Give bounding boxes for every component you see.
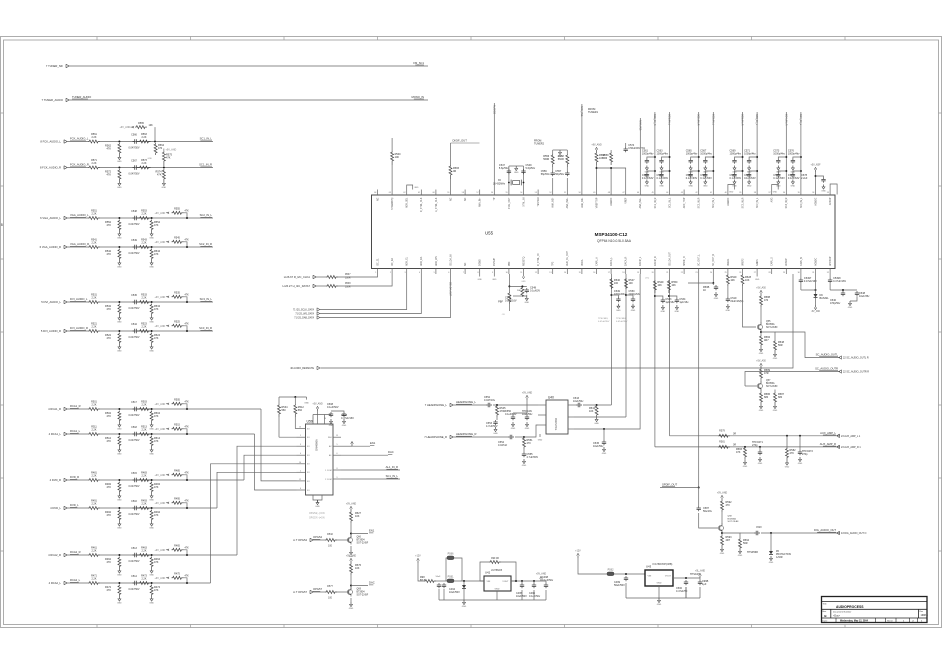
svg-text:GND: GND bbox=[117, 267, 122, 269]
svg-text:C517: C517 bbox=[131, 401, 137, 404]
svg-text:GND: GND bbox=[773, 192, 778, 194]
fuse PS62 bbox=[607, 569, 614, 576]
resistor R587 680 bbox=[774, 392, 777, 404]
svg-text:GND: GND bbox=[495, 589, 500, 591]
svg-text:GND: GND bbox=[149, 528, 154, 530]
wire AUDIO2 to pin TP bbox=[493, 103, 495, 190]
wire bbox=[578, 558, 607, 574]
svg-text:ANA_IN+: ANA_IN+ bbox=[479, 197, 482, 207]
svg-text:2.2K: 2.2K bbox=[92, 326, 97, 329]
svg-text:-5V: -5V bbox=[502, 314, 506, 316]
svg-text:TUNER2: TUNER2 bbox=[534, 143, 545, 146]
svg-text:+9V_AND: +9V_AND bbox=[155, 502, 166, 505]
ground bbox=[594, 417, 599, 425]
resistor R584 4R7 bbox=[760, 335, 763, 347]
svg-text:29: 29 bbox=[783, 272, 785, 274]
svg-text:FM_SC1: FM_SC1 bbox=[413, 61, 424, 65]
IC U59 DM4066 body bbox=[306, 420, 334, 496]
wire bus riser x=237.0 bbox=[237, 446, 297, 555]
resistor R571 2.2K bbox=[88, 166, 100, 169]
wire SC2_IN_R bbox=[698, 112, 700, 190]
resistor R565 10K bbox=[135, 126, 147, 129]
wire branch bbox=[509, 285, 526, 287]
wire bbox=[610, 150, 612, 152]
svg-text:C528: C528 bbox=[756, 527, 762, 529]
transistor Q57 BC856A bbox=[757, 382, 762, 391]
transistor Q55 BC856A bbox=[757, 323, 762, 332]
wire collector bbox=[350, 575, 352, 589]
svg-text:SC4_IN_L: SC4_IN_L bbox=[801, 197, 803, 208]
svg-text:8 FCK_AUDIO_L: 8 FCK_AUDIO_L bbox=[40, 140, 61, 144]
net label AUDIO2 (rotated) bbox=[492, 105, 495, 115]
wire bbox=[829, 283, 831, 290]
svg-text:7: 7 bbox=[312, 418, 313, 420]
svg-text:GND: GND bbox=[117, 500, 122, 502]
net label DIGIF_OUT bbox=[451, 139, 480, 144]
svg-text:47K: 47K bbox=[107, 224, 112, 227]
svg-text:53: 53 bbox=[535, 192, 537, 194]
svg-text:1: 1 bbox=[300, 435, 301, 437]
svg-text:DVI_AUDIO_R: DVI_AUDIO_R bbox=[70, 326, 88, 330]
svg-text:+9V_AND: +9V_AND bbox=[120, 126, 131, 129]
svg-text:C518: C518 bbox=[131, 426, 137, 429]
resistor R503 2.2K bbox=[139, 408, 151, 411]
svg-text:71 I2S_SCLK_DATA: 71 I2S_SCLK_DATA bbox=[293, 309, 314, 312]
svg-text:680: 680 bbox=[764, 396, 769, 399]
wire bypass right bbox=[501, 562, 516, 581]
capacitor C566 0.047/50V bbox=[133, 139, 139, 143]
svg-text:47K: 47K bbox=[107, 589, 112, 592]
title block frame bbox=[822, 597, 928, 623]
junction bbox=[186, 582, 188, 584]
svg-text:I/O: I/O bbox=[307, 481, 310, 483]
connector 23 AUX_AMP_L bbox=[837, 434, 861, 438]
junction bbox=[610, 294, 612, 296]
power +5V_AND out bbox=[536, 573, 547, 581]
svg-text:+9V_AND: +9V_AND bbox=[155, 428, 166, 431]
svg-text:SC1_IN_R: SC1_IN_R bbox=[653, 114, 656, 126]
svg-text:47K: 47K bbox=[107, 514, 112, 517]
resistor R485 47K bbox=[172, 473, 184, 476]
svg-text:2.2K: 2.2K bbox=[142, 162, 147, 165]
svg-text:47K: 47K bbox=[154, 308, 159, 311]
svg-text:A_CTRL_CLK: A_CTRL_CLK bbox=[435, 197, 438, 212]
ground stub above U59 bbox=[304, 397, 309, 405]
connector 4 RCA1_R bbox=[48, 407, 67, 411]
svg-text:A.T OPG57: A.T OPG57 bbox=[293, 590, 307, 594]
svg-text:+5V_AND: +5V_AND bbox=[536, 573, 547, 576]
wire cap stub bbox=[611, 295, 618, 297]
svg-text:SC_OUT_L: SC_OUT_L bbox=[699, 254, 701, 266]
svg-text:ADR_DA: ADR_DA bbox=[420, 256, 423, 266]
svg-text:680: 680 bbox=[778, 396, 783, 399]
ground bbox=[732, 180, 737, 188]
junction bbox=[799, 435, 801, 437]
capacitor C564 0.1uF/63V bbox=[659, 173, 663, 178]
resistor R505 47K bbox=[172, 402, 184, 405]
svg-text:STANDBYQ: STANDBYQ bbox=[391, 197, 394, 209]
wire bbox=[337, 539, 349, 541]
svg-text:1000p/4kv: 1000p/4kv bbox=[686, 153, 698, 156]
junction bbox=[698, 156, 700, 158]
connector 4 DVD_L bbox=[50, 506, 67, 510]
svg-text:0.1uF/63V: 0.1uF/63V bbox=[657, 177, 669, 180]
svg-text:0.1uF/63V: 0.1uF/63V bbox=[730, 177, 742, 180]
connector 8 FCK_AUDIO_L bbox=[40, 140, 67, 144]
svg-text:6: 6 bbox=[448, 272, 449, 274]
resistor R511 2.2K bbox=[88, 433, 100, 436]
wire bbox=[68, 507, 89, 509]
net label SC3_IN_L bbox=[200, 297, 213, 301]
wire bbox=[685, 587, 687, 598]
connector 71 I2S_WS_DATA bbox=[295, 312, 319, 316]
net label DAC bbox=[369, 581, 375, 585]
resistor R482 47K bbox=[118, 482, 121, 494]
net label DVD_L bbox=[70, 503, 79, 507]
capacitor C5497 0.47uF/16V bbox=[799, 278, 803, 283]
svg-text:HEADPHONE_R: HEADPHONE_R bbox=[456, 432, 477, 436]
svg-text:XTAL_OUT: XTAL_OUT bbox=[508, 197, 511, 209]
ground bbox=[149, 345, 154, 353]
capacitor C565 1000p/4kv bbox=[689, 159, 693, 164]
svg-text:12: 12 bbox=[299, 479, 301, 481]
ground bbox=[726, 304, 731, 312]
svg-text:R581: R581 bbox=[719, 441, 725, 444]
ground bbox=[688, 180, 693, 188]
resistor R513 2.2K bbox=[139, 433, 151, 436]
svg-text:62: 62 bbox=[403, 192, 405, 194]
wire bus riser x=244.0 bbox=[244, 455, 297, 480]
svg-text:R545: R545 bbox=[174, 237, 180, 240]
svg-text:GND: GND bbox=[602, 453, 607, 455]
net label SC1_IN_R bbox=[199, 163, 212, 167]
ground bbox=[117, 597, 122, 605]
svg-text:1000p/4kv: 1000p/4kv bbox=[657, 153, 669, 156]
diode D9 BAS32L bbox=[814, 294, 818, 297]
power +9V_AND feed bbox=[155, 212, 170, 215]
svg-text:PROTECTION: PROTECTION bbox=[776, 554, 791, 556]
svg-text:4 RCA1_R: 4 RCA1_R bbox=[48, 407, 61, 411]
wire +9V feed corner bbox=[184, 475, 188, 480]
ground bbox=[525, 422, 530, 430]
svg-text:2.2K: 2.2K bbox=[92, 475, 97, 478]
resistor R471 2.2K bbox=[88, 582, 100, 585]
svg-text:56uF: 56uF bbox=[436, 576, 441, 578]
svg-text:2.2K: 2.2K bbox=[92, 550, 97, 553]
svg-text:14: 14 bbox=[324, 418, 326, 420]
svg-text:GND: GND bbox=[714, 298, 719, 300]
svg-text:0.047/50V: 0.047/50V bbox=[129, 146, 140, 149]
power +9V_AND feed bbox=[155, 549, 170, 552]
U59 right pin stubs bbox=[325, 435, 341, 481]
svg-text:2.2K: 2.2K bbox=[142, 550, 147, 553]
net label OPG57 bbox=[313, 587, 322, 591]
svg-text:SC1_IN_R: SC1_IN_R bbox=[199, 163, 212, 167]
resistor R533 2.2K bbox=[139, 301, 151, 304]
junction bbox=[151, 433, 153, 435]
svg-text:NC: NC bbox=[450, 197, 452, 201]
resistor R98 0R bbox=[424, 580, 436, 583]
resistor R462 47K bbox=[118, 557, 121, 569]
wire TUNER_SIF bbox=[70, 65, 429, 67]
svg-text:1000p/4kv: 1000p/4kv bbox=[744, 153, 756, 156]
capacitor C533 100p bbox=[661, 298, 665, 303]
net label SC3_IN_R (rotated) bbox=[741, 114, 744, 126]
svg-text:+9V_AND: +9V_AND bbox=[155, 325, 166, 328]
transistor Q66 BT3904 bbox=[347, 536, 352, 545]
wire cap stub bbox=[793, 157, 801, 159]
svg-text:C516: C516 bbox=[131, 500, 137, 503]
net label SC3_IN_R bbox=[199, 326, 212, 330]
svg-text:1µF/16v: 1µF/16v bbox=[679, 301, 689, 304]
svg-text:TPSC683,: TPSC683, bbox=[598, 318, 608, 320]
resistor R545 47K bbox=[172, 240, 184, 243]
svg-text:GND: GND bbox=[747, 186, 752, 188]
resistor R589 47R bbox=[760, 368, 763, 379]
svg-text:Date:: Date: bbox=[822, 620, 828, 623]
svg-text:GND: GND bbox=[117, 603, 122, 605]
wire bbox=[625, 583, 627, 598]
svg-text:DACA_L: DACA_L bbox=[610, 256, 613, 266]
svg-text:47K: 47K bbox=[154, 561, 159, 564]
wire +9V feed corner bbox=[184, 550, 188, 555]
border zone ticks top/bottom bbox=[97, 37, 845, 628]
svg-text:0.047uF: 0.047uF bbox=[498, 444, 508, 447]
resistor R528 10K bbox=[741, 274, 744, 286]
wire ANA_IN2+ bbox=[639, 118, 641, 190]
svg-text:I2S_DA_OUT: I2S_DA_OUT bbox=[449, 282, 452, 297]
connector 23 AUX_AMP_R bbox=[837, 445, 862, 449]
resistor R491 2.2K bbox=[88, 507, 100, 510]
wire bbox=[312, 415, 314, 421]
wire AUDIO_RESMUTE bbox=[321, 274, 794, 368]
capacitor C553 4.7uF/50V bbox=[493, 420, 497, 425]
ground bbox=[759, 347, 764, 355]
wire bbox=[294, 397, 296, 404]
capacitor C550 2200p/63v bbox=[631, 297, 635, 302]
svg-text:1: 1 bbox=[375, 272, 376, 274]
ground bbox=[675, 305, 680, 313]
svg-text:100: 100 bbox=[614, 282, 619, 285]
capacitor C515 0.047/50V bbox=[133, 478, 139, 482]
resistor R562 47K bbox=[118, 143, 121, 155]
svg-text:11: 11 bbox=[520, 272, 522, 274]
svg-text:0.1uF/63V: 0.1uF/63V bbox=[686, 177, 698, 180]
svg-text:4.7uF/50V: 4.7uF/50V bbox=[527, 456, 539, 459]
resistor R474 47K bbox=[150, 585, 153, 597]
svg-text:Q57: Q57 bbox=[766, 380, 771, 382]
svg-text:2.2K: 2.2K bbox=[142, 503, 147, 506]
capacitor C500 0.47uF/50 bbox=[684, 580, 688, 585]
resistor R543 2.2K bbox=[139, 246, 151, 249]
svg-text:DVSUP: DVSUP bbox=[494, 258, 496, 266]
wire bbox=[68, 217, 89, 219]
svg-text:GND: GND bbox=[329, 425, 334, 427]
wire bbox=[446, 558, 447, 581]
wire to pin bbox=[450, 179, 452, 190]
net label DAC bbox=[388, 450, 394, 454]
svg-text:+9V_AND: +9V_AND bbox=[591, 144, 602, 147]
svg-text:GND: GND bbox=[117, 187, 122, 189]
svg-text:13: 13 bbox=[549, 272, 551, 274]
net label ANA_IN1+ (rotated) bbox=[580, 106, 583, 118]
ground stub below pin DACM_R bbox=[755, 274, 760, 281]
ground stub below pin bbox=[492, 274, 497, 281]
svg-text:63: 63 bbox=[389, 192, 391, 194]
svg-text:I2S_DA_IN: I2S_DA_IN bbox=[449, 254, 452, 266]
resistor R593 4R7 bbox=[721, 535, 724, 547]
svg-text:GND: GND bbox=[645, 186, 650, 188]
svg-text:AGNDC: AGNDC bbox=[727, 197, 730, 206]
svg-text:GND: GND bbox=[558, 156, 563, 158]
junction bbox=[760, 331, 762, 333]
svg-text:56R: 56R bbox=[778, 344, 783, 347]
wire I2S_SCLK bbox=[320, 274, 407, 310]
svg-text:16: 16 bbox=[593, 272, 595, 274]
svg-text:Sheet: Sheet bbox=[887, 620, 893, 623]
svg-text:GND: GND bbox=[758, 463, 763, 465]
junction bbox=[669, 156, 671, 158]
svg-text:5: 5 bbox=[434, 272, 435, 274]
svg-text:8 FCK_AUDIO_R: 8 FCK_AUDIO_R bbox=[40, 166, 61, 170]
svg-text:GND: GND bbox=[414, 187, 419, 189]
wire bbox=[331, 411, 344, 412]
svg-text:470: 470 bbox=[527, 442, 532, 445]
resistor R532 47K bbox=[118, 304, 121, 316]
ground bbox=[848, 301, 853, 309]
ground U43 rail bbox=[657, 598, 662, 606]
capacitor C551 10uF/50v bbox=[525, 415, 529, 420]
wire emitter out bbox=[761, 332, 775, 340]
svg-text:SPDIF_OUT: SPDIF_OUT bbox=[662, 483, 677, 487]
wire bbox=[68, 582, 89, 584]
svg-text:DACM_L: DACM_L bbox=[639, 256, 642, 266]
resistor R537 100R bbox=[326, 276, 338, 279]
ground bbox=[117, 345, 122, 353]
wire bbox=[830, 289, 857, 291]
svg-text:1000p/4kv: 1000p/4kv bbox=[642, 153, 654, 156]
resistor R504 47K bbox=[150, 411, 153, 423]
net label HEADPHONE_R bbox=[456, 432, 477, 436]
svg-text:GND: GND bbox=[594, 423, 599, 425]
wire bbox=[523, 449, 525, 452]
net label MONO_IN bbox=[411, 95, 424, 99]
svg-text:2.2K: 2.2K bbox=[142, 578, 147, 581]
wire pin1 to bias bbox=[295, 428, 296, 430]
wire bbox=[815, 274, 817, 290]
svg-text:AUX_AMP_R: AUX_AMP_R bbox=[820, 442, 836, 446]
junction bbox=[742, 170, 744, 172]
resistor R573 2.2K bbox=[139, 166, 151, 169]
wire SC4_IN_R bbox=[785, 112, 787, 190]
net label SPDIF_OUT bbox=[662, 483, 677, 487]
resistor R572 47K bbox=[118, 169, 121, 181]
svg-text:56uF/50V: 56uF/50V bbox=[614, 584, 625, 587]
connector TUNER_AUDIO bbox=[42, 98, 70, 102]
ground U59 bbox=[315, 500, 320, 508]
svg-text:Document Number: Document Number bbox=[833, 610, 852, 613]
svg-text:VOUT: VOUT bbox=[502, 581, 509, 583]
svg-text:56p/50v: 56p/50v bbox=[555, 173, 565, 176]
svg-text:0.047/50V: 0.047/50V bbox=[129, 439, 140, 442]
capacitor C555 4.7uF/50V bbox=[522, 452, 526, 457]
svg-text:47K: 47K bbox=[107, 337, 112, 340]
resistor R561 2.2K bbox=[88, 140, 100, 143]
svg-text:PBF: PBF bbox=[498, 301, 503, 304]
svg-text:D_CTRL_CLK: D_CTRL_CLK bbox=[421, 197, 423, 212]
wire to U55 pin bbox=[338, 274, 392, 286]
svg-text:2.2K: 2.2K bbox=[142, 213, 147, 216]
svg-text:PBF: PBF bbox=[509, 261, 511, 266]
net label SC2_IN_L bbox=[200, 213, 213, 217]
svg-text:DM4066A: DM4066A bbox=[315, 439, 319, 451]
capacitor C576 1000p/4kv bbox=[791, 159, 795, 164]
svg-text:NC: NC bbox=[465, 197, 467, 201]
connector 46 AUDIO_RESMUTE bbox=[290, 366, 320, 370]
svg-text:13: 13 bbox=[299, 427, 301, 429]
resistor R514 47K bbox=[150, 436, 153, 448]
svg-text:+9V_AND: +9V_AND bbox=[155, 241, 166, 244]
wire bbox=[337, 591, 349, 593]
svg-text:4R7: 4R7 bbox=[764, 339, 769, 342]
U59 bottom ground stubs bbox=[313, 495, 322, 503]
svg-text:47K: 47K bbox=[157, 174, 162, 177]
net label EN1 bbox=[369, 529, 375, 533]
resistor R579 0R bbox=[718, 434, 730, 437]
svg-text:C549: C549 bbox=[131, 239, 137, 242]
resistor R512 47K bbox=[118, 436, 121, 448]
junction bbox=[625, 573, 627, 575]
svg-text:R532: R532 bbox=[327, 533, 333, 536]
ground bbox=[659, 180, 664, 188]
connector 22 SC_AUDIO_OUTL bbox=[839, 356, 869, 360]
svg-text:BC856A: BC856A bbox=[766, 323, 775, 326]
wire cap stub bbox=[735, 171, 743, 173]
capacitor C550 0.1uF/63V bbox=[511, 415, 515, 420]
svg-text:24: 24 bbox=[710, 272, 712, 274]
svg-text:47K: 47K bbox=[154, 589, 159, 592]
wire +9V feed corner bbox=[184, 404, 188, 409]
capacitor C570 0.1uF/63V bbox=[732, 173, 736, 178]
svg-text:10K: 10K bbox=[395, 156, 400, 159]
svg-text:39: 39 bbox=[739, 192, 741, 194]
net label ANA_IN2+ (rotated) bbox=[638, 120, 641, 132]
svg-text:GND: GND bbox=[661, 311, 666, 313]
wire bbox=[566, 150, 568, 154]
svg-text:GND: GND bbox=[304, 403, 309, 405]
svg-text:INH: INH bbox=[328, 437, 332, 439]
junction bbox=[800, 170, 802, 172]
svg-text:+9V_AND: +9V_AND bbox=[155, 474, 166, 477]
svg-text:SC_AUDIO_OUTR: SC_AUDIO_OUTR bbox=[815, 367, 838, 371]
resistor R521 2.2K bbox=[88, 330, 100, 333]
ground bbox=[511, 422, 516, 430]
wire pin2 to bias bbox=[279, 436, 297, 438]
power +12V U42 bbox=[415, 556, 421, 563]
svg-text:46 AUDIO_RESMUTE: 46 AUDIO_RESMUTE bbox=[290, 367, 314, 370]
svg-text:10K: 10K bbox=[657, 284, 662, 287]
svg-text:EN1: EN1 bbox=[370, 441, 376, 445]
svg-text:TPSC47: TPSC47 bbox=[690, 573, 700, 576]
wire cap stub bbox=[778, 171, 786, 173]
power +5L_AND bbox=[695, 570, 705, 578]
wire bbox=[760, 379, 762, 383]
svg-text:MSP34100-C12: MSP34100-C12 bbox=[595, 232, 628, 237]
wire cap stub bbox=[655, 296, 663, 298]
wire bbox=[688, 282, 713, 284]
wire base bbox=[314, 591, 326, 593]
svg-text:2200p/63v: 2200p/63v bbox=[629, 293, 641, 296]
